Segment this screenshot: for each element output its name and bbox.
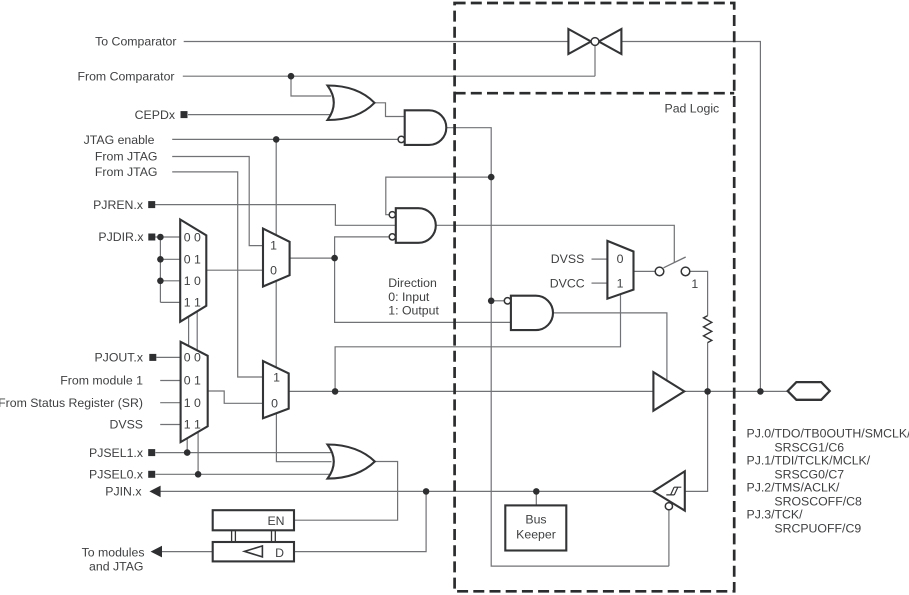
- mux M4 output source mux: [263, 361, 289, 418]
- svg-text:DVCC: DVCC: [550, 276, 585, 290]
- wire buffer U5 output to pad: [684, 390, 787, 392]
- wire output node to mux M5 select: [335, 294, 620, 391]
- svg-text:0: 0: [270, 264, 277, 278]
- wire DVCC stub to mux M5: [592, 282, 608, 284]
- arrow To modules and JTAG: [151, 546, 162, 558]
- wire PJSEL1 riser to mux M3 select: [186, 438, 188, 452]
- svg-text:EN: EN: [267, 514, 284, 528]
- D latch clock triangle: [245, 546, 263, 557]
- terminal square PJOUT.x: [149, 354, 156, 361]
- svg-text:0: 0: [271, 397, 278, 411]
- svg-text:JTAG enable: JTAG enable: [84, 133, 155, 147]
- arrow PJIN.x output: [149, 486, 160, 498]
- schmitt trigger U7 input buffer: [653, 471, 685, 510]
- mux M2 direction source mux: [263, 229, 290, 287]
- junction pad node at resistor: [704, 388, 711, 395]
- svg-text:PJSEL1.x: PJSEL1.x: [89, 446, 144, 460]
- wire AND U4 output to buffer U5 enable: [553, 313, 667, 381]
- terminal square PJREN.x: [148, 201, 155, 208]
- wire AND U2 output enable chain down to Schmitt bubble: [446, 128, 669, 566]
- junction PJIN at D latch tap: [423, 488, 430, 495]
- svg-text:PJREN.x: PJREN.x: [93, 198, 144, 212]
- svg-text:PJ.0/TDO/TB0OUTH/SMCLK/: PJ.0/TDO/TB0OUTH/SMCLK/: [747, 427, 909, 441]
- terminal square PJSEL0.x: [148, 471, 155, 478]
- junction enable chain at NAND branch: [488, 174, 495, 181]
- svg-text:PJDIR.x: PJDIR.x: [98, 230, 144, 244]
- wire OR U1 output to AND U2 top input: [375, 103, 405, 117]
- wire mux M1 output to mux M2 input 0: [206, 269, 263, 271]
- wire From JTAG upper to mux M2 input 1: [172, 157, 263, 246]
- switch S2 pull resistor switch circle left: [655, 267, 664, 276]
- wire From module 1 stub: [160, 380, 180, 382]
- svg-text:PJOUT.x: PJOUT.x: [94, 351, 143, 365]
- junction PJSEL1 node: [184, 449, 191, 456]
- terminal square CEPDx: [181, 111, 188, 118]
- junction pad node at comparator column: [757, 388, 764, 395]
- svg-text:D: D: [275, 546, 284, 560]
- svg-text:From module 1: From module 1: [60, 374, 143, 388]
- analog switch S1 control bubble: [591, 38, 599, 46]
- svg-text:1: 1: [617, 276, 624, 290]
- svg-text:Direction: Direction: [388, 276, 437, 290]
- D latch box: [213, 542, 294, 561]
- EN latch box: [213, 510, 294, 530]
- pad logic dashed divider: [455, 92, 735, 95]
- svg-text:1: Output: 1: Output: [388, 304, 439, 318]
- wire CEPDx to OR U1 bottom input: [188, 114, 332, 116]
- svg-text:PJ.3/TCK/: PJ.3/TCK/: [747, 508, 804, 522]
- junction PJDIR bus row 3: [157, 278, 164, 285]
- svg-text:From JTAG: From JTAG: [95, 165, 158, 179]
- wire PJREN.x to NAND U3 middle input: [155, 205, 396, 226]
- pad hexagon PJ.x: [788, 382, 830, 400]
- svg-text:and JTAG: and JTAG: [89, 560, 143, 574]
- and-gate U2 JTAG enable gate: [405, 110, 447, 145]
- junction direction node: [331, 255, 338, 262]
- wire enable chain to NAND U3 top input: [386, 177, 491, 215]
- svg-text:From Comparator: From Comparator: [77, 69, 174, 83]
- svg-text:Bus: Bus: [525, 512, 546, 526]
- svg-text:1 1: 1 1: [184, 418, 201, 432]
- nand-gate U3 bottom bubble: [389, 234, 395, 240]
- wire mux M3 output to mux M4 input 0: [208, 391, 263, 403]
- wire JTAG enable to AND U2 bubble input: [172, 138, 398, 140]
- and-gate U4 input bubble: [504, 298, 510, 304]
- analog switch S1 right triangle: [599, 29, 622, 54]
- svg-text:1: 1: [270, 239, 277, 253]
- junction PJIN at bus keeper tap: [533, 488, 540, 495]
- schmitt trigger U7 enable bubble: [665, 503, 672, 510]
- wire From Comparator branch to OR U1 top input: [291, 76, 331, 96]
- or-gate U6 PJSEL: [328, 445, 375, 479]
- wire bus keeper stub: [535, 491, 537, 505]
- and-gate U4 input buffer enable: [511, 296, 553, 330]
- wire mux M5 output to switch S1: [634, 270, 656, 272]
- wire From Status Register stub: [160, 402, 180, 404]
- wire JTAG enable drop to mux M2 select: [275, 139, 277, 235]
- switch S2 pull resistor switch circle right: [681, 267, 690, 276]
- svg-text:SRCPUOFF/C9: SRCPUOFF/C9: [774, 522, 861, 536]
- svg-text:PJ.2/TMS/ACLK/: PJ.2/TMS/ACLK/: [747, 481, 841, 495]
- wire select link mux M2 to mux M4: [275, 281, 277, 368]
- wire From Comparator: [183, 75, 595, 77]
- wire switch control riser: [594, 46, 596, 77]
- pad logic dashed boundary box: [455, 3, 735, 591]
- svg-text:0 1: 0 1: [184, 253, 201, 267]
- junction PJDIR bus row 1: [157, 234, 164, 241]
- svg-text:SRSCG0/C7: SRSCG0/C7: [774, 468, 844, 482]
- svg-text:0: Input: 0: Input: [388, 290, 430, 304]
- terminal square PJDIR.x: [148, 234, 155, 241]
- wire PJIN.x input line: [160, 490, 653, 492]
- svg-text:To Comparator: To Comparator: [95, 35, 176, 49]
- svg-text:1 0: 1 0: [184, 274, 201, 288]
- wire From JTAG lower to mux M4 input 1: [172, 172, 263, 377]
- mux M3 PJOUT output mux: [181, 342, 208, 442]
- svg-text:0 0: 0 0: [184, 230, 201, 244]
- wire DVSS stub to mux M5: [592, 258, 608, 260]
- bus keeper block: [505, 505, 566, 550]
- junction PJDIR bus row 2: [157, 256, 164, 263]
- svg-text:PJSEL0.x: PJSEL0.x: [89, 468, 144, 482]
- and-gate U2 input bubble: [398, 136, 404, 142]
- svg-text:1 0: 1 0: [184, 396, 201, 410]
- wire D latch output to modules arrow: [162, 551, 213, 553]
- wire mux M2 output to direction node: [290, 257, 335, 259]
- buffer U5 output driver: [653, 372, 684, 411]
- wire DVSS stub to mux M3: [160, 424, 180, 426]
- wire direction node to AND U4 bottom input: [335, 258, 511, 322]
- wire switch S1 lever: [664, 257, 686, 268]
- svg-text:PJ.1/TDI/TCLK/MCLK/: PJ.1/TDI/TCLK/MCLK/: [747, 454, 871, 468]
- wire PJOUT.x to mux M3: [156, 356, 180, 358]
- schmitt trigger U7 hysteresis glyph: [666, 487, 681, 495]
- wire select links mux M1 to mux M3: [189, 311, 198, 350]
- or-gate U1 comparator enable: [328, 86, 375, 121]
- svg-text:1: 1: [273, 370, 280, 384]
- junction enable chain at AND U4 branch: [488, 298, 495, 305]
- svg-text:From Status Register (SR): From Status Register (SR): [0, 396, 143, 410]
- wire To Comparator to analog switch: [184, 41, 569, 43]
- wire NAND U3 output to switch lever: [436, 225, 674, 262]
- junction JTAG enable node: [273, 136, 280, 143]
- wire PJIN tap to D latch input: [294, 491, 426, 551]
- svg-text:Pad Logic: Pad Logic: [665, 101, 720, 115]
- svg-text:From JTAG: From JTAG: [95, 150, 158, 164]
- junction PJSEL0 node: [195, 471, 202, 478]
- svg-text:SRSCG1/C6: SRSCG1/C6: [774, 441, 844, 455]
- wire OR U6 output to EN latch: [294, 462, 398, 521]
- junction output node: [332, 388, 339, 395]
- wire mux M4 output to buffer U5 input: [289, 390, 654, 392]
- wire PJSEL0 riser to mux M3 select: [197, 432, 199, 474]
- wire direction node to NAND U3 bottom input: [335, 237, 389, 258]
- analog switch S1 left triangle: [568, 29, 591, 54]
- svg-text:Keeper: Keeper: [516, 528, 556, 542]
- wire analog switch to pad column: [622, 42, 761, 392]
- EN latch legs: [232, 530, 276, 542]
- svg-text:0 0: 0 0: [184, 351, 201, 365]
- junction From Comparator node: [288, 73, 295, 80]
- nand-gate U3 top bubble: [389, 212, 395, 218]
- svg-text:1: 1: [691, 277, 698, 291]
- wire PJDIR.x input bus of mux M1: [155, 237, 180, 302]
- terminal square PJSEL1.x: [148, 449, 155, 456]
- wire switch S1 to resistor R1 and Schmitt U7 input: [685, 271, 708, 491]
- wire select link mux M4 to OR U6 middle input: [276, 413, 331, 462]
- svg-text:SROSCOFF/C8: SROSCOFF/C8: [774, 495, 862, 509]
- svg-text:PJIN.x: PJIN.x: [105, 485, 142, 499]
- mux M1 PJDIR direction mux: [180, 220, 206, 322]
- wire enable chain to AND U4 bubble input: [491, 300, 504, 302]
- wire PJSEL0.x to OR U6 bottom input: [155, 473, 332, 475]
- wire PJSEL1.x to OR U6 top input: [155, 452, 331, 454]
- svg-text:0: 0: [617, 252, 624, 266]
- svg-text:1 1: 1 1: [184, 296, 201, 310]
- nand-gate U3 pullup control: [396, 208, 436, 243]
- svg-text:DVSS: DVSS: [551, 252, 585, 266]
- svg-text:CEPDx: CEPDx: [135, 108, 176, 122]
- svg-text:DVSS: DVSS: [110, 418, 144, 432]
- mux M5 DVSS/DVCC pull select mux: [607, 241, 633, 299]
- svg-text:To modules: To modules: [82, 546, 145, 560]
- svg-text:0 1: 0 1: [184, 374, 201, 388]
- resistor R1 pullup/pulldown: [704, 316, 712, 343]
